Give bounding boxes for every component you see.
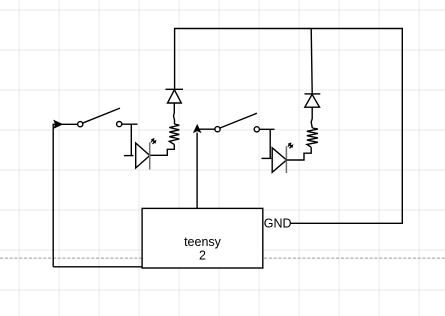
wire: D1 to R1 — [174, 103, 175, 124]
wire: teensy up to SW2 with arrow — [196, 133, 198, 209]
LED LED1 — [136, 139, 156, 170]
resistor R2 — [307, 128, 318, 147]
diode D1 — [166, 89, 184, 103]
svg-text:2: 2 — [199, 248, 206, 262]
svg-text:teensy: teensy — [184, 235, 222, 249]
switch SW2 — [197, 128, 215, 130]
wire: D2 to R2 — [311, 107, 312, 128]
wire: LED1 anode lead — [124, 155, 134, 157]
wire: switch SW1 to LED1 — [122, 124, 138, 156]
svg-text:GND: GND — [264, 217, 292, 231]
wire: GND net top rail + right side down to GND label — [175, 29, 403, 224]
wire: LED2 to R2 (staircase) — [287, 147, 312, 160]
switch SW1 — [78, 108, 122, 127]
wire: SW2 to LED2 — [259, 129, 274, 158]
wire: R1 to LED1 (staircase) — [150, 145, 175, 156]
wire: LED2 anode lead — [262, 157, 272, 159]
wire: bottom run to teensy — [53, 266, 142, 268]
teensy U1 box — [142, 208, 263, 268]
LED LED2 — [272, 143, 292, 173]
diode D2 — [305, 94, 321, 107]
wire: rail drop to diode D2 — [311, 29, 312, 94]
wire: left feed with arrow into SW1 — [53, 124, 77, 266]
resistor R1 — [169, 124, 179, 145]
page boundary dashed line — [0, 257, 445, 259]
